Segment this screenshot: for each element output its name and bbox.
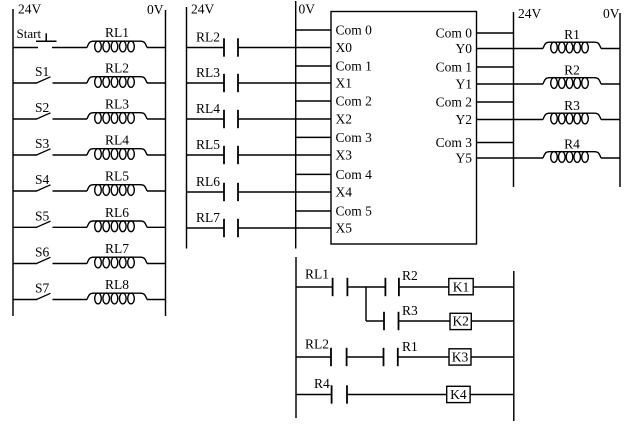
svg-text:RL3: RL3	[105, 97, 129, 112]
24V rail (left section)	[12, 9, 14, 316]
wire K2 to rail	[471, 320, 514, 322]
svg-text:Com 1: Com 1	[436, 60, 472, 75]
wire coil R3 to 0V	[601, 119, 620, 121]
wire rail to RL1 contact	[296, 286, 333, 288]
svg-text:0V: 0V	[147, 2, 164, 17]
svg-text:Com 1: Com 1	[336, 59, 372, 74]
coil RL4	[87, 149, 147, 155]
contact RL5	[187, 154, 225, 156]
wire X1 contact to PLC	[238, 82, 331, 84]
svg-text:S5: S5	[35, 208, 50, 223]
wire K1 to rail	[473, 286, 514, 288]
left rail (bottom ladder)	[295, 257, 297, 418]
svg-text:S7: S7	[35, 281, 50, 296]
svg-text:K2: K2	[452, 314, 469, 329]
coil RL3	[87, 113, 147, 119]
svg-text:S1: S1	[35, 64, 49, 79]
wire RL2 to 0V	[147, 82, 166, 84]
relay K2	[450, 313, 471, 329]
svg-text:R3: R3	[564, 98, 580, 113]
wire X2 contact to PLC	[238, 118, 331, 120]
svg-text:24V: 24V	[191, 2, 215, 17]
coil RL6	[87, 221, 147, 227]
coil RL7	[87, 257, 147, 263]
svg-text:K4: K4	[450, 387, 467, 402]
wire RL1 to 0V	[147, 47, 166, 49]
svg-text:X0: X0	[336, 40, 353, 55]
svg-text:RL2: RL2	[196, 30, 220, 45]
svg-text:RL2: RL2	[105, 61, 129, 76]
wire Y1 to coil R2	[477, 83, 544, 85]
coil RL5	[87, 185, 147, 191]
svg-text:Com 4: Com 4	[336, 167, 373, 182]
switch S2	[13, 118, 37, 120]
svg-text:RL1: RL1	[105, 25, 129, 40]
svg-text:R4: R4	[314, 376, 330, 391]
svg-text:Com 5: Com 5	[336, 204, 373, 219]
svg-text:R4: R4	[564, 137, 580, 152]
svg-text:RL6: RL6	[196, 174, 220, 189]
svg-text:S2: S2	[35, 100, 49, 115]
contact R4	[331, 385, 333, 403]
svg-text:0V: 0V	[299, 2, 316, 17]
svg-text:K3: K3	[452, 350, 469, 365]
wire Com 1 to 0V rail	[296, 65, 331, 67]
switch S7	[13, 299, 37, 301]
svg-text:R1: R1	[564, 27, 580, 42]
coil R1	[543, 42, 601, 48]
wire output Com 2 to 24V rail	[477, 101, 514, 103]
wire R3 to K2	[399, 320, 451, 322]
contact RL1	[332, 278, 334, 296]
svg-text:Com 2: Com 2	[336, 94, 372, 109]
wire R4 to K4	[347, 394, 447, 396]
svg-text:RL3: RL3	[196, 65, 220, 80]
svg-text:RL6: RL6	[105, 205, 129, 220]
switch S4	[13, 190, 37, 192]
wire R2 to K1	[399, 286, 449, 288]
svg-text:Y1: Y1	[456, 77, 473, 92]
svg-text:24V: 24V	[518, 6, 542, 21]
switch S6	[13, 263, 37, 265]
coil RL1	[87, 41, 147, 47]
wire X5 contact to PLC	[238, 227, 331, 229]
svg-text:R3: R3	[402, 303, 418, 318]
wire K3 to rail	[471, 356, 514, 358]
contact R1	[383, 348, 385, 366]
relay K1	[449, 279, 473, 295]
svg-text:X4: X4	[336, 185, 353, 200]
wire RL2 to R1 contact	[347, 356, 384, 358]
svg-text:R2: R2	[402, 268, 418, 283]
svg-text:RL8: RL8	[105, 277, 129, 292]
switch Start (pushbutton)	[13, 47, 38, 49]
wire X0 contact to PLC	[238, 47, 331, 49]
wire Com 2 to 0V rail	[296, 100, 331, 102]
wire junction to R2 contact	[366, 286, 385, 288]
contact RL7	[187, 227, 225, 229]
coil RL2	[87, 77, 147, 83]
svg-text:S3: S3	[35, 136, 50, 151]
svg-text:24V: 24V	[18, 2, 42, 17]
svg-text:Y0: Y0	[456, 41, 473, 56]
wire RL8 to 0V	[147, 299, 166, 301]
contact RL2	[330, 348, 332, 366]
wire rail to R4 contact	[296, 394, 332, 396]
24V rail (middle section)	[186, 7, 188, 249]
wire Com 3 to 0V rail	[296, 136, 331, 138]
wire RL3 to 0V	[147, 118, 166, 120]
wire Com 5 to 0V rail	[296, 210, 331, 212]
relay K4	[447, 386, 470, 402]
switch S5	[13, 226, 37, 228]
wire output Com 0 to 24V rail	[477, 32, 514, 34]
svg-text:Com 0: Com 0	[436, 26, 473, 41]
svg-text:R1: R1	[402, 339, 418, 354]
svg-text:RL7: RL7	[196, 210, 220, 225]
junction branch wire	[365, 287, 367, 321]
wire RL6 to 0V	[147, 226, 166, 228]
svg-text:Y2: Y2	[456, 112, 473, 127]
svg-text:X5: X5	[336, 221, 353, 236]
svg-text:0V: 0V	[603, 6, 620, 21]
switch S1	[13, 82, 37, 84]
contact RL2	[187, 47, 225, 49]
24V rail (right section)	[513, 12, 515, 187]
wire RL5 to 0V	[147, 190, 166, 192]
svg-text:S6: S6	[35, 245, 50, 260]
contact R2	[384, 278, 386, 296]
svg-text:RL7: RL7	[105, 241, 129, 256]
svg-text:RL4: RL4	[105, 133, 129, 148]
svg-text:RL5: RL5	[196, 137, 220, 152]
svg-text:Com 3: Com 3	[336, 130, 373, 145]
svg-text:X3: X3	[336, 148, 353, 163]
wire rail to RL2 contact	[296, 356, 331, 358]
coil R3	[543, 113, 601, 119]
svg-text:RL1: RL1	[305, 267, 329, 282]
svg-text:Start: Start	[17, 26, 42, 41]
wire RL1 to junction	[347, 286, 366, 288]
wire coil R2 to 0V	[601, 83, 620, 85]
wire Com 4 to 0V rail	[296, 173, 331, 175]
coil RL8	[87, 293, 147, 299]
svg-text:RL4: RL4	[196, 101, 220, 116]
wire Com 0 to 0V rail	[296, 29, 331, 31]
svg-text:Com 3: Com 3	[436, 135, 473, 150]
0V rail (middle section)	[295, 1, 297, 249]
wire Y5 to coil R4	[477, 157, 544, 159]
svg-text:Y5: Y5	[456, 151, 473, 166]
wire output Com 1 to 24V rail	[477, 66, 514, 68]
wire branch to R3 contact	[366, 320, 384, 322]
wire X3 contact to PLC	[238, 154, 331, 156]
contact R3	[383, 312, 385, 330]
switch S3	[13, 154, 37, 156]
0V rail (right section)	[619, 13, 621, 187]
wire R1 to K3	[398, 356, 449, 358]
svg-text:Com 0: Com 0	[336, 23, 373, 38]
wire Y0 to coil R1	[477, 48, 544, 50]
svg-text:Com 2: Com 2	[436, 95, 472, 110]
PLC box U1	[331, 12, 477, 245]
wire K4 to rail	[470, 394, 514, 396]
svg-text:K1: K1	[453, 280, 470, 295]
svg-text:X1: X1	[336, 76, 353, 91]
right rail (bottom ladder)	[513, 271, 515, 421]
wire coil R4 to 0V	[601, 157, 620, 159]
svg-text:S4: S4	[35, 172, 50, 187]
svg-text:RL2: RL2	[305, 337, 329, 352]
wire coil R1 to 0V	[601, 48, 620, 50]
svg-text:RL5: RL5	[105, 169, 129, 184]
contact RL6	[187, 191, 225, 193]
wire RL7 to 0V	[147, 263, 166, 265]
0V rail (left section)	[165, 10, 167, 316]
wire X4 contact to PLC	[238, 191, 331, 193]
wire RL4 to 0V	[147, 154, 166, 156]
contact RL3	[187, 82, 225, 84]
svg-text:X2: X2	[336, 112, 353, 127]
wire output Com 3 to 24V rail	[477, 142, 514, 144]
coil R2	[543, 78, 601, 84]
wire Y2 to coil R3	[477, 119, 544, 121]
relay K3	[449, 349, 471, 365]
contact RL4	[187, 118, 225, 120]
coil R4	[543, 152, 601, 158]
svg-text:R2: R2	[564, 63, 580, 78]
